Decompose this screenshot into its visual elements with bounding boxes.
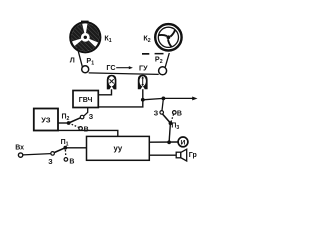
- wire GVCh to P2 contact Z: [84, 108, 88, 116]
- indicator I: [178, 137, 188, 147]
- tape wire K1 to P1: [78, 48, 83, 67]
- oscillator box GVCh: [73, 91, 98, 108]
- speaker Gr: [176, 149, 187, 161]
- switch P2: [58, 115, 84, 130]
- svg-text:И: И: [181, 140, 186, 147]
- svg-text:В: В: [69, 158, 74, 165]
- wire UU to speaker: [149, 154, 176, 156]
- wire GU head down to GVCh: [98, 89, 143, 107]
- reel K1: [70, 21, 100, 53]
- erase head GS: [107, 75, 117, 90]
- junction dot GU wire: [141, 98, 145, 102]
- svg-text:ГС: ГС: [106, 63, 115, 72]
- wire P1 to UU: [65, 147, 86, 149]
- wire P3 common down: [169, 123, 170, 142]
- svg-text:Вх: Вх: [15, 145, 24, 152]
- switch P1: [51, 146, 68, 161]
- svg-text:З: З: [48, 159, 53, 166]
- universal amp box UU: [87, 136, 150, 160]
- switch P3: [160, 111, 176, 126]
- svg-text:Гр: Гр: [189, 152, 197, 159]
- svg-text:В: В: [177, 110, 182, 117]
- svg-text:З: З: [154, 110, 159, 117]
- wire UZ bottom bus to UU top: [58, 130, 118, 136]
- output arrowhead: [192, 97, 197, 101]
- svg-text:УЗ: УЗ: [41, 115, 51, 124]
- arrow tape direction: [116, 66, 133, 69]
- svg-text:З: З: [89, 114, 94, 121]
- wire UU to indicator: [149, 141, 177, 143]
- junction dot P3 common: [167, 140, 171, 144]
- roller P2: [159, 67, 167, 75]
- reel K2: [155, 24, 181, 50]
- tape wire P1 to P2: [89, 73, 159, 75]
- universal head GU: [138, 75, 148, 90]
- wire junction to output arrow: [143, 98, 193, 99]
- svg-text:ГУ: ГУ: [139, 64, 148, 73]
- wire junction to P3 contact Z: [162, 98, 163, 110]
- wire input to P1 contact Z: [23, 154, 51, 155]
- input terminal: [18, 153, 22, 157]
- roller P1: [82, 66, 89, 73]
- junction dot P3 line: [162, 97, 166, 101]
- svg-text:ГВЧ: ГВЧ: [79, 97, 93, 104]
- svg-text:уу: уу: [114, 144, 123, 153]
- tape wire K2 to P2: [165, 53, 169, 67]
- wire GS head to GVCh: [98, 89, 111, 95]
- label P2 with dashes: [142, 53, 164, 65]
- record amp box UZ: [34, 109, 58, 131]
- svg-text:Л: Л: [70, 56, 75, 65]
